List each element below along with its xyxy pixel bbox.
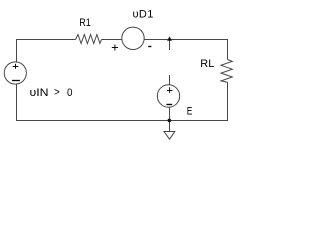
svg-text:υD1: υD1 [133, 9, 154, 21]
svg-text:R1: R1 [79, 17, 91, 29]
svg-text:0: 0 [67, 87, 73, 99]
svg-text:E: E [187, 106, 193, 118]
svg-text:>: > [54, 87, 60, 99]
svg-text:υIN: υIN [30, 87, 49, 99]
svg-text:RL: RL [200, 58, 214, 70]
